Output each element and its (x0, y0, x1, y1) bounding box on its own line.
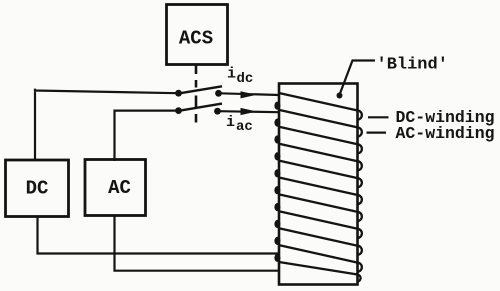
wire from switch S2 left contact to AC box top (115, 111, 178, 161)
svg-text:AC-winding: AC-winding (396, 124, 495, 143)
linkage dashed line from ACS to switches (195, 65, 198, 123)
svg-text:'Blind': 'Blind' (377, 56, 448, 75)
winding turn 1 strand (279, 93, 358, 111)
svg-text:i: i (226, 114, 235, 131)
wire S2 to core (220, 111, 280, 112)
wire S1 to core (220, 93, 279, 95)
winding turn 8 strand (279, 211, 358, 229)
winding turn 10 strand (279, 245, 358, 263)
transformer core rectangle (279, 84, 358, 285)
winding turn 7 strand (279, 194, 358, 212)
leader line AC-winding (367, 132, 387, 134)
box DC source (6, 160, 69, 217)
switch S2 (AC contact) (175, 107, 182, 114)
current arrow i_ac (241, 108, 257, 115)
winding turn 3 strand (279, 127, 358, 145)
leader line DC-winding (368, 116, 389, 118)
box AC source (85, 160, 146, 216)
svg-text:dc: dc (237, 71, 254, 87)
svg-text:AC: AC (108, 177, 131, 199)
winding turn 6 strand (279, 178, 358, 196)
winding turn 2 strand (279, 110, 358, 128)
winding turn 4 strand (279, 144, 358, 162)
winding front strands (279, 93, 358, 275)
leader line to 'Blind' label with arrow (340, 61, 375, 94)
svg-text:i: i (227, 66, 236, 83)
current arrow i_dc (241, 91, 257, 98)
winding turn 11 strand (279, 262, 358, 275)
svg-text:ACS: ACS (179, 28, 213, 50)
winding turn 9 strand (279, 228, 358, 246)
svg-text:DC: DC (26, 178, 49, 200)
box ACS (automatic changeover switch) (167, 5, 228, 65)
wire AC box bottom to core bottom left (115, 216, 280, 271)
switch S1 (DC contact) (175, 90, 182, 97)
winding left-edge loops (274, 102, 280, 262)
winding turn 5 strand (279, 161, 358, 179)
svg-text:ac: ac (236, 119, 253, 135)
wire from switch S1 left contact to DC box top (34, 89, 178, 161)
wire DC box bottom to core bottom left (38, 217, 280, 254)
winding right-edge loops (357, 111, 362, 282)
